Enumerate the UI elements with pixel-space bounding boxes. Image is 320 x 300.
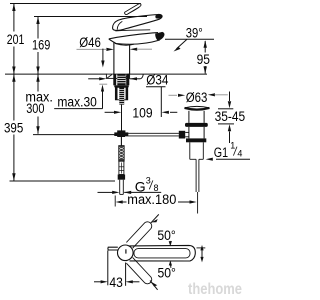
svg-text:201: 201 bbox=[7, 32, 25, 47]
svg-text:43: 43 bbox=[109, 275, 123, 290]
svg-text:1: 1 bbox=[230, 140, 235, 150]
svg-text:G1: G1 bbox=[214, 145, 228, 160]
svg-text:95: 95 bbox=[197, 52, 210, 67]
svg-text:109: 109 bbox=[132, 106, 152, 121]
svg-text:max.180: max.180 bbox=[127, 192, 176, 207]
svg-text:4: 4 bbox=[237, 148, 242, 158]
svg-text:395: 395 bbox=[4, 120, 23, 135]
svg-text:Ø46: Ø46 bbox=[79, 35, 101, 50]
svg-text:3: 3 bbox=[146, 176, 151, 186]
svg-text:39°: 39° bbox=[186, 25, 203, 40]
svg-text:max.30: max.30 bbox=[57, 95, 97, 110]
svg-text:Ø63: Ø63 bbox=[186, 90, 208, 105]
svg-text:300: 300 bbox=[26, 101, 44, 116]
svg-text:50°: 50° bbox=[158, 264, 176, 280]
svg-text:169: 169 bbox=[32, 38, 50, 53]
svg-text:35-45: 35-45 bbox=[215, 109, 246, 124]
svg-text:50°: 50° bbox=[157, 227, 175, 243]
svg-text:thehome: thehome bbox=[188, 281, 242, 298]
svg-text:Ø34: Ø34 bbox=[146, 73, 169, 88]
